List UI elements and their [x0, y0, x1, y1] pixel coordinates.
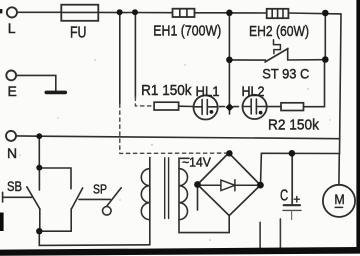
heating element EH1: [173, 9, 195, 17]
node SB lower: [36, 228, 42, 234]
wire column x229 top bus to lamp row: [228, 13, 230, 107]
svg-text:E: E: [8, 83, 17, 99]
wire ST row left: [229, 59, 265, 61]
node EH1 right: [226, 10, 233, 17]
node lamp row: [225, 103, 233, 111]
wire SB link top: [39, 168, 71, 189]
node ST right: [322, 56, 329, 63]
wire stub below lamp node: [229, 107, 231, 114]
wire N to SB: [38, 136, 40, 167]
wire E to ground: [16, 75, 56, 91]
node SB upper: [36, 165, 42, 171]
svg-text:L: L: [8, 20, 16, 36]
wire dash HL1 to node: [220, 106, 225, 108]
transformer T1 primary: [141, 158, 150, 245]
transformer T1 secondary: [179, 158, 229, 232]
wire R2 riser: [304, 60, 325, 107]
switch SB right blade: [72, 188, 83, 209]
svg-text:EH2 (60W): EH2 (60W): [249, 23, 309, 40]
wire EH1 to node: [195, 12, 230, 14]
svg-text:N: N: [7, 145, 17, 161]
resistor R2: [281, 103, 304, 111]
wire motor lead: [338, 153, 340, 185]
wire column x325: [324, 13, 326, 59]
thermostat ST blade: [265, 49, 288, 63]
wire ST right: [288, 48, 323, 60]
svg-text:C: C: [280, 187, 288, 204]
wire fuse to EH1: [98, 11, 172, 13]
lamp HL1: [194, 95, 218, 119]
svg-text:FU: FU: [70, 25, 87, 42]
node bridge top: [226, 150, 232, 156]
rectifier bridge diamond: [198, 153, 261, 216]
wire EH2 to top right corner: [288, 12, 341, 15]
svg-text:ST 93 C: ST 93 C: [262, 66, 309, 82]
wire branch column x135: [134, 13, 136, 97]
svg-text:EH1 (700W): EH1 (700W): [153, 22, 221, 39]
svg-text:SB: SB: [7, 178, 22, 194]
node EH2 right: [322, 10, 329, 17]
ground: [46, 91, 65, 95]
svg-text:HL2: HL2: [242, 83, 265, 99]
wire SB left upper contact: [38, 168, 40, 191]
wire bottom bus: [39, 231, 150, 245]
left edge blob top: [0, 9, 2, 13]
wire bridge right riser: [260, 153, 263, 185]
node N to SB: [36, 133, 42, 139]
wire SB left lower: [39, 209, 41, 231]
terminal E: [6, 71, 16, 81]
terminal N: [6, 131, 16, 141]
transformer core: [165, 158, 169, 219]
node ST left: [226, 57, 233, 64]
switch SP blade: [107, 188, 121, 206]
node bridge right: [257, 182, 264, 189]
resistor R1: [154, 102, 179, 110]
switch SP contact line: [79, 198, 110, 200]
svg-text:SP: SP: [93, 182, 107, 197]
wire branch column x120: [119, 13, 121, 104]
motor M: [323, 185, 355, 217]
fuse FU: [61, 5, 98, 21]
svg-text:M: M: [334, 191, 344, 207]
wire dashed column x120 to rectifier top: [120, 104, 229, 153]
svg-text:R2 150k: R2 150k: [268, 117, 319, 134]
capacitor C: [283, 153, 301, 219]
wire HL2 to R2: [267, 106, 281, 108]
wire node to EH2: [229, 12, 266, 14]
wire L to fuse: [17, 11, 61, 13]
terminal L: [7, 7, 17, 17]
diode VD: [201, 180, 258, 191]
switch SB left terminal: [3, 192, 32, 202]
wire R1 to HL1: [179, 105, 194, 107]
wire stub down left: [259, 222, 261, 252]
node bridge left: [194, 181, 201, 188]
scan speckles: [19, 37, 330, 241]
wire stub below bridge left node: [197, 185, 199, 211]
wire right vertical to motor bus: [340, 14, 342, 154]
wire dash node to HL2: [234, 106, 239, 108]
wire SB right lower: [39, 209, 71, 231]
wire stub down right: [279, 219, 281, 249]
node top bus a: [117, 9, 123, 15]
right border: [356, 0, 360, 250]
lamp HL2: [243, 95, 267, 119]
capacitor plus sign: [294, 196, 299, 202]
wire dashed to R1: [135, 97, 154, 106]
bottom border: [0, 247, 360, 256]
svg-text:~14V: ~14V: [182, 155, 211, 170]
heating element EH2: [267, 9, 289, 18]
switch SB left blade: [27, 187, 40, 209]
node capacitor tap: [289, 150, 296, 157]
node top bus b: [132, 9, 138, 15]
wire N bus: [16, 136, 340, 139]
switch SP circle: [103, 207, 112, 216]
thermostat ST bimetal mark: [274, 40, 281, 54]
left edge blob bottom: [0, 213, 4, 232]
svg-text:HL1: HL1: [196, 83, 220, 99]
wire DC bus to motor: [261, 152, 339, 154]
svg-text:R1 150k: R1 150k: [141, 82, 192, 99]
